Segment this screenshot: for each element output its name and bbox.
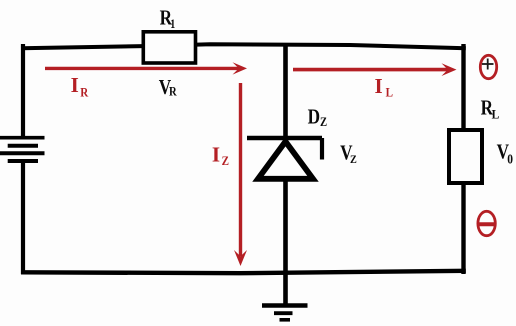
svg-text:I: I (71, 73, 79, 97)
svg-text:1: 1 (170, 18, 175, 31)
svg-text:D: D (308, 106, 320, 129)
svg-text:I: I (375, 74, 383, 98)
svg-text:I: I (212, 143, 220, 167)
svg-text:R: R (169, 85, 177, 99)
svg-text:R: R (80, 85, 88, 100)
svg-text:Z: Z (350, 154, 357, 167)
svg-text:Z: Z (320, 115, 327, 129)
svg-text:0: 0 (507, 152, 513, 167)
svg-text:Z: Z (222, 153, 229, 168)
svg-text:L: L (386, 85, 393, 100)
svg-text:L: L (492, 107, 500, 122)
